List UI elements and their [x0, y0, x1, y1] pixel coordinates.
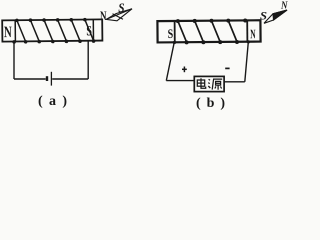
battery BT1 long plate (positive)	[50, 72, 52, 86]
wire: bottom left segment (b)	[166, 80, 194, 82]
compass needle (figure a), hollow bowtie diamond pointing up-right	[106, 9, 132, 21]
battery BT1 short plate (negative)	[46, 76, 48, 81]
solenoid L2 left end-cap divider	[174, 21, 176, 42]
svg-text:N: N	[4, 24, 12, 41]
winding junction dots of L1 (bottom edge)	[12, 39, 95, 43]
winding junction dots of L2 (bottom edge)	[173, 40, 250, 45]
wire: right lead of L2 (slanted)	[245, 42, 249, 82]
winding junction dots of L1 (top edge)	[15, 18, 87, 22]
wire: left lead of L1	[13, 41, 15, 79]
svg-text:N: N	[100, 8, 107, 23]
svg-text:N: N	[280, 0, 288, 11]
svg-text:( a ): ( a )	[38, 94, 67, 109]
label - terminal	[225, 67, 229, 69]
wire: bottom right segment (b)	[224, 81, 245, 83]
wire: bottom right segment (a)	[52, 78, 88, 80]
solenoid L2 right end-cap divider	[246, 20, 248, 41]
wire: left lead of L2 (slanted)	[166, 42, 174, 81]
svg-text:S: S	[118, 0, 124, 15]
solenoid L2 coil assembly (figure b), slight scan tilt	[157, 18, 260, 44]
winding turns of L2	[178, 21, 237, 43]
paper background	[0, 0, 290, 113]
svg-text:N: N	[250, 26, 256, 41]
wire: right lead of L1	[87, 41, 89, 79]
solenoid L1 left end-cap divider	[14, 20, 16, 41]
compass needle (figure b), tip half filled, pointing up-right	[264, 10, 287, 23]
wire: bottom left segment (a)	[14, 78, 46, 80]
solenoid L1 coil assembly (figure a), slight scan tilt	[2, 18, 102, 44]
solenoid L1 right end-cap divider	[92, 19, 94, 40]
power supply glyph 源	[208, 79, 222, 90]
power supply glyph 电	[197, 78, 205, 88]
winding junction dots of L2 (top edge)	[176, 18, 247, 23]
solenoid L2 body (figure b)	[157, 20, 260, 42]
winding turns of L1	[17, 20, 94, 42]
svg-text:S: S	[86, 24, 92, 39]
solenoid L1 body (figure a)	[2, 19, 102, 41]
label + terminal	[182, 67, 187, 73]
svg-text:( b ): ( b )	[196, 96, 225, 111]
power supply box U1	[194, 76, 224, 91]
svg-text:S: S	[168, 26, 174, 41]
